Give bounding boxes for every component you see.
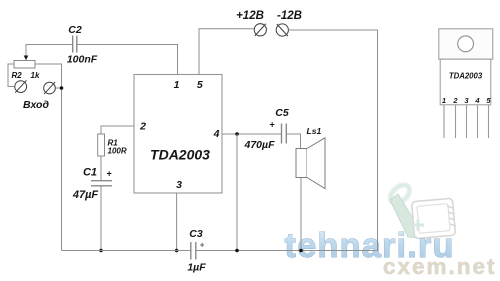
wire C5 to speaker	[287, 134, 301, 148]
svg-text:100R: 100R	[108, 147, 127, 156]
wire IC pin 2 left and down to R1	[101, 126, 134, 134]
wire speaker bottom to rail	[300, 178, 302, 251]
junction node speaker-rail	[299, 249, 303, 253]
wire -12V terminal right and down to bottom rail	[289, 30, 378, 251]
capacitor C3	[191, 242, 196, 260]
ground rail right segment	[196, 250, 377, 252]
potentiometer R2 wiper arrow	[24, 56, 29, 61]
resistor R1	[98, 134, 105, 156]
TDA2003 package tab	[439, 29, 493, 59]
svg-text:2: 2	[139, 121, 146, 133]
wire C1 bottom to ground rail	[100, 186, 102, 250]
svg-text:R2: R2	[12, 71, 23, 80]
capacitor C1	[91, 181, 112, 186]
package pin 5 lead	[488, 105, 490, 138]
wire from C2 right to IC pin 1	[77, 45, 177, 75]
package pin 2 lead	[455, 105, 457, 138]
watermark document icon	[412, 198, 456, 238]
op-amp IC TDA2003 body	[134, 75, 222, 194]
package pin 4 lead	[477, 105, 479, 138]
junction node C1-rail	[99, 249, 103, 253]
svg-text:1: 1	[174, 79, 180, 91]
svg-text:1µF: 1µF	[187, 262, 206, 274]
package body	[440, 59, 491, 105]
svg-text:2: 2	[452, 96, 458, 105]
input jack terminal left	[15, 80, 27, 92]
svg-text:+: +	[269, 120, 275, 130]
junction node pin3-rail	[175, 249, 179, 253]
svg-text:C3: C3	[189, 228, 203, 240]
potentiometer R2 body	[14, 61, 35, 69]
svg-text:+: +	[106, 169, 112, 179]
svg-text:3: 3	[176, 179, 182, 191]
svg-text:5: 5	[197, 79, 203, 91]
svg-text:470µF: 470µF	[244, 139, 276, 151]
svg-text:TDA2003: TDA2003	[150, 147, 210, 163]
junction node jack-ground	[60, 86, 64, 90]
speaker Ls1	[296, 138, 325, 189]
svg-text:+12В: +12В	[236, 10, 264, 22]
package mounting hole	[458, 36, 474, 52]
wire input jack right to ground line	[56, 87, 62, 89]
+12V terminal	[254, 24, 266, 36]
svg-text:1k: 1k	[31, 71, 40, 80]
svg-text:Ls1: Ls1	[307, 126, 322, 136]
package pin 1 lead	[443, 105, 445, 138]
-12V terminal	[276, 24, 288, 36]
junction node pin4	[235, 132, 239, 136]
svg-text:cxem.net: cxem.net	[383, 254, 497, 279]
junction node pin4-rail	[235, 249, 239, 253]
svg-text:4: 4	[213, 128, 220, 140]
svg-text:47µF: 47µF	[72, 189, 99, 201]
svg-text:Вход: Вход	[23, 99, 49, 111]
wire from pot wiper up and right to C2	[26, 45, 72, 56]
package pin 3 lead	[466, 105, 468, 138]
svg-text:C2: C2	[68, 24, 82, 36]
wire pot right lead down to ground rail	[35, 64, 62, 251]
capacitor C2	[73, 36, 77, 53]
svg-text:1: 1	[442, 96, 446, 105]
capacitor C5	[282, 124, 287, 144]
svg-text:100nF: 100nF	[67, 54, 98, 66]
input jack terminal right	[44, 82, 56, 94]
ground rail left segment	[62, 250, 191, 252]
svg-text:4: 4	[474, 96, 480, 105]
wire pin4 junction down to rail	[236, 134, 238, 251]
tehnari.ru watermark logo pencil	[387, 181, 419, 238]
wire IC pin 5 up to +12V terminal	[199, 29, 254, 75]
svg-text:+: +	[200, 241, 205, 250]
wire IC pin 3 down to rail	[176, 193, 178, 251]
svg-text:C5: C5	[275, 107, 289, 119]
wire pot left lead to input jack	[8, 64, 14, 87]
svg-text:-12В: -12В	[277, 10, 302, 22]
wire R1 bottom to C1	[100, 156, 102, 180]
svg-text:TDA2003: TDA2003	[449, 72, 483, 81]
wire IC pin 4 to C5	[222, 133, 281, 135]
svg-text:C1: C1	[83, 167, 97, 179]
